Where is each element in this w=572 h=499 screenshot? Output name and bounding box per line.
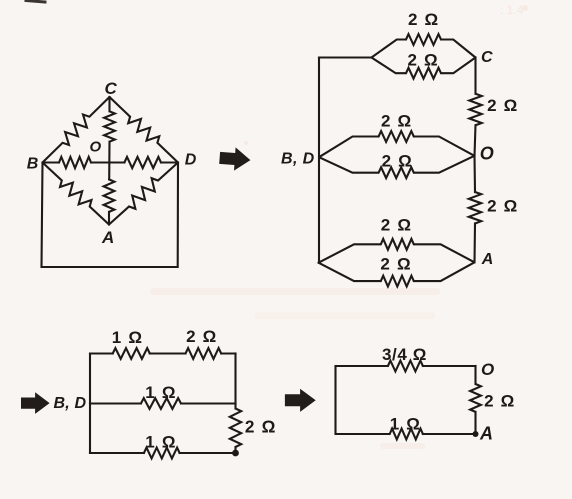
svg-text:2 Ω: 2 Ω — [381, 111, 412, 130]
svg-text:1 Ω: 1 Ω — [390, 414, 421, 433]
svg-text:O: O — [480, 143, 494, 163]
svg-text:A: A — [101, 228, 114, 247]
svg-text:1 Ω: 1 Ω — [112, 328, 143, 347]
svg-text:2 Ω: 2 Ω — [484, 392, 515, 411]
svg-text:1 Ω: 1 Ω — [145, 383, 176, 402]
svg-text:A: A — [479, 423, 493, 443]
svg-text:A: A — [481, 251, 494, 268]
svg-text:2 Ω: 2 Ω — [408, 10, 439, 29]
svg-text:: 1.4: : 1.4 — [500, 3, 524, 17]
svg-text:2 Ω: 2 Ω — [380, 255, 411, 274]
svg-text:2 Ω: 2 Ω — [487, 96, 518, 115]
svg-text:1 Ω: 1 Ω — [145, 433, 176, 452]
svg-text:2 Ω: 2 Ω — [245, 416, 277, 436]
svg-text:O: O — [481, 360, 494, 379]
svg-text:2 Ω: 2 Ω — [381, 216, 412, 235]
svg-text:D: D — [185, 152, 197, 169]
svg-text:C: C — [104, 79, 117, 98]
svg-text:B: B — [27, 156, 39, 173]
svg-text:2 Ω: 2 Ω — [407, 51, 438, 70]
svg-text:2 Ω: 2 Ω — [487, 197, 518, 216]
svg-text:O: O — [89, 138, 101, 155]
svg-text:B, D: B, D — [54, 395, 87, 412]
svg-text:2 Ω: 2 Ω — [186, 327, 217, 346]
svg-text:3/4 Ω: 3/4 Ω — [382, 345, 427, 364]
svg-text:B, D: B, D — [281, 151, 315, 168]
svg-text:C: C — [481, 49, 493, 66]
svg-text:2 Ω: 2 Ω — [382, 151, 413, 170]
